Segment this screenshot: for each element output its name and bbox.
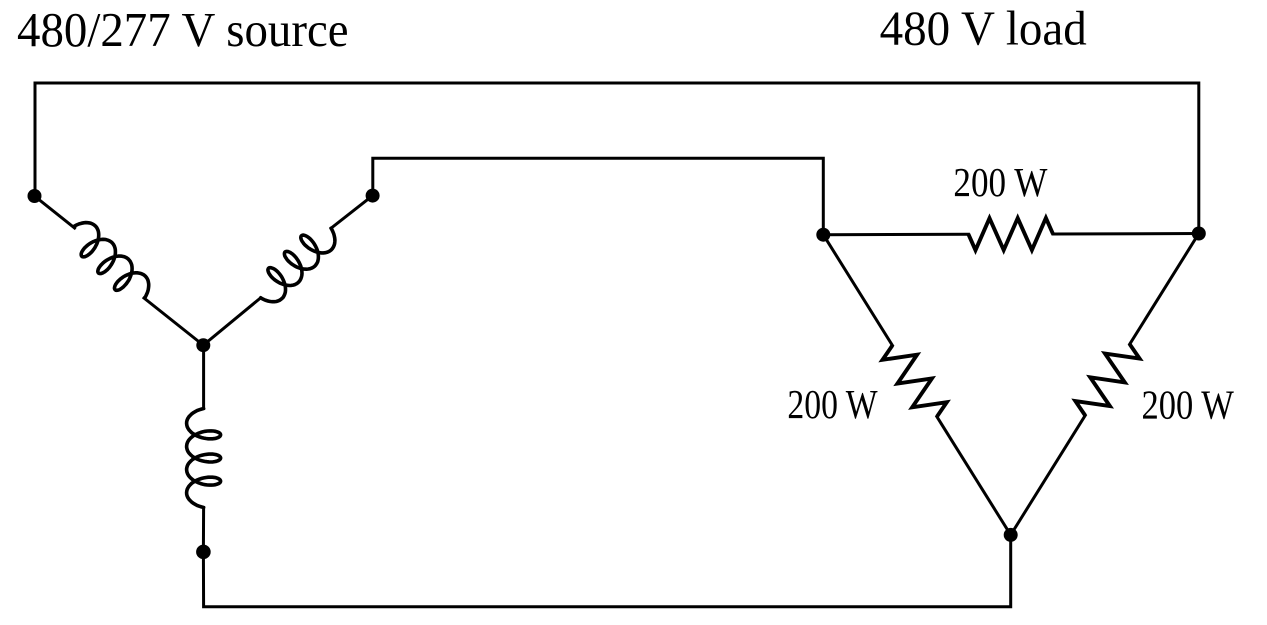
wire: neutral node to coil L2 — [203, 298, 260, 345]
svg-text:200 W: 200 W — [787, 381, 877, 427]
node B (phase B terminal) — [366, 189, 380, 203]
inductor L2 (phase B winding) — [261, 228, 335, 302]
wire: A dot to coil L1 — [35, 196, 75, 228]
node A (phase A terminal) — [28, 189, 42, 203]
node: delta left corner — [816, 228, 830, 242]
node C (phase C terminal) — [196, 545, 211, 560]
node: delta right corner — [1192, 227, 1206, 241]
wire: delta top side (right part) — [1053, 232, 1199, 236]
resistor R2 200 W (delta left) — [883, 345, 947, 416]
node: delta bottom corner — [1004, 528, 1018, 542]
inductor L1 (phase A winding) — [74, 223, 149, 298]
wire: delta left side (upper part) — [823, 235, 892, 346]
wire: delta right side (upper part) — [1130, 234, 1199, 345]
svg-text:480/277 V source: 480/277 V source — [17, 2, 349, 57]
wire: neutral node to coil L3 — [202, 345, 205, 408]
node N (wye neutral) — [196, 338, 210, 352]
wire: delta right side (lower part) — [1011, 416, 1085, 535]
wire: coil L3 to C dot — [202, 508, 205, 552]
wire: delta top side (left part) — [823, 233, 968, 237]
wire: delta left side (lower part) — [937, 417, 1011, 535]
wire: coil L2 to B dot — [331, 196, 373, 229]
svg-text:480 V load: 480 V load — [880, 1, 1087, 56]
wire: phase B terminal up, mid bus, down to left delta node — [373, 158, 824, 234]
resistor R1 200 W (delta top) — [968, 218, 1053, 250]
wire: coil L1 to neutral node — [144, 298, 203, 345]
wire: phase C terminal down, bottom bus, up to bottom delta node — [203, 535, 1010, 607]
wire: phase A terminal up, top bus, down to right delta node — [35, 83, 1199, 234]
svg-text:200 W: 200 W — [953, 159, 1047, 205]
resistor R3 200 W (delta right) — [1075, 344, 1139, 415]
svg-text:200 W: 200 W — [1142, 382, 1235, 428]
inductor L3 (phase C winding) — [187, 409, 221, 508]
